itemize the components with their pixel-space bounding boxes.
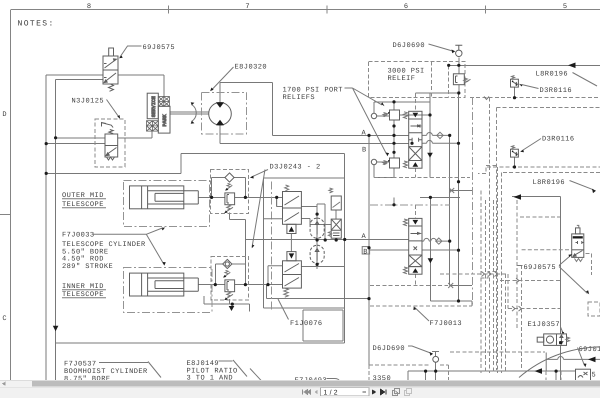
wire pump top riser bbox=[219, 83, 221, 103]
svg-text:D: D bbox=[2, 111, 6, 119]
bundle chevrons top bbox=[484, 97, 489, 100]
valve hoist center cell ticks bbox=[409, 138, 422, 142]
wire vertical 369 bbox=[368, 135, 370, 365]
cb2 relief arrow bbox=[223, 270, 230, 277]
wire relief row top bbox=[374, 102, 430, 114]
toolbar prev view icon bbox=[393, 389, 400, 396]
relief 3000psi body bbox=[453, 74, 464, 85]
svg-text:SERVICE: SERVICE bbox=[151, 96, 157, 117]
wire line A hoist bbox=[272, 134, 408, 136]
wire valve1 port B bbox=[422, 140, 459, 143]
seq valve 2 pilot box bbox=[287, 252, 296, 261]
brake block hatch bottom-left bbox=[147, 121, 159, 131]
underline OUTER MID bbox=[62, 198, 106, 200]
valve F7J0013 pilot top bbox=[409, 218, 422, 226]
valve N3J0125 body bbox=[105, 134, 118, 157]
valve 69J0575 right spring bbox=[575, 259, 583, 262]
wire valve1 port A bbox=[422, 133, 450, 136]
valve N3J0125 spring top bbox=[109, 130, 113, 134]
f1j x valve top box bbox=[331, 196, 341, 210]
svg-text:PARK: PARK bbox=[162, 114, 168, 126]
flow arrow hoist bbox=[427, 153, 433, 158]
f1j capsule 1 arrow bbox=[315, 222, 319, 235]
dashed jog lower right bbox=[480, 272, 496, 279]
vent D6JD690 circle bbox=[433, 356, 439, 362]
inner cylinder inner tube bbox=[155, 281, 184, 289]
shuttle D3R0116 lower bbox=[511, 149, 519, 157]
f1j x valve spring bbox=[328, 232, 331, 237]
svg-text:RELEIF: RELEIF bbox=[388, 75, 416, 83]
box telescope section bbox=[264, 178, 345, 308]
toolbar background bbox=[0, 387, 600, 398]
ruler tick top 1 bbox=[167, 6, 169, 14]
wire bottom main bbox=[56, 342, 345, 344]
svg-text:B: B bbox=[362, 147, 367, 155]
valve hoist spring top bbox=[404, 112, 408, 119]
check diamond telescope bbox=[436, 238, 442, 244]
svg-text:289" STROKE: 289" STROKE bbox=[62, 262, 113, 271]
svg-text:NOTES:: NOTES: bbox=[18, 20, 55, 29]
wire return staircase bbox=[46, 154, 345, 343]
leader F7J0033 bbox=[93, 228, 164, 265]
wire pump outlet bbox=[219, 125, 221, 143]
dashed bundle line 3 bbox=[489, 98, 491, 373]
vent D6J0690 bbox=[456, 50, 462, 56]
svg-text:69J0575: 69J0575 bbox=[524, 264, 557, 272]
wire vertical 394 bbox=[393, 102, 395, 178]
dashed pilot y305 bbox=[370, 305, 472, 307]
wire right arrow line bbox=[512, 196, 561, 198]
leader E8J0320 bbox=[213, 67, 234, 89]
port relief B body bbox=[390, 158, 400, 168]
svg-text:D3R0116: D3R0116 bbox=[542, 136, 575, 144]
arrow rail y371 bbox=[535, 368, 543, 374]
valve 69J0575 arrows bbox=[105, 60, 117, 83]
leader D3R0116 upper bbox=[522, 85, 539, 89]
wire cb2 branch bbox=[215, 264, 245, 285]
component E1J0357 arrows bbox=[560, 335, 563, 344]
scrollbar track bbox=[0, 381, 600, 388]
arrow right y197 bbox=[514, 194, 522, 200]
relief 3000psi spring bbox=[464, 78, 471, 83]
wire pump top link bbox=[220, 82, 272, 84]
dashed jog upper right bbox=[478, 166, 496, 174]
brake block PARK cell bbox=[158, 106, 170, 133]
port relief B pilot circle bbox=[371, 159, 376, 164]
box right region top edge bbox=[496, 107, 600, 109]
box outer mid cylinder enclosure bbox=[124, 180, 210, 226]
ruler tick top 3 bbox=[485, 6, 487, 14]
outer cylinder barrel bbox=[130, 186, 184, 209]
leader 69J0575 right down bbox=[559, 267, 588, 294]
junction dots d3r bbox=[513, 96, 516, 99]
wire relief3000 bottom bbox=[458, 85, 460, 93]
box right region left edge bbox=[495, 108, 497, 371]
wire valve2 port B bbox=[422, 249, 459, 251]
wire line B hoist bbox=[220, 142, 409, 144]
valve hoist pilot bottom bbox=[409, 161, 422, 169]
wire left riser 1 bbox=[46, 75, 103, 381]
svg-text:L8R0196: L8R0196 bbox=[533, 179, 566, 187]
svg-text:D3R0116: D3R0116 bbox=[540, 87, 573, 95]
component E1J0357 spring bbox=[566, 337, 570, 342]
outer cylinder inner tube bbox=[155, 193, 184, 201]
motor triangle top bbox=[216, 102, 224, 108]
wire d3r2 drop bbox=[514, 157, 516, 167]
wire line A telescope bbox=[245, 239, 408, 241]
border left line bbox=[10, 10, 12, 381]
seq valve 1 pilot box bbox=[287, 224, 296, 233]
chain line y205 bbox=[370, 204, 450, 206]
wire vertical 449 lower bbox=[449, 241, 451, 285]
junction dots bottom rail bbox=[424, 370, 427, 373]
ruler tick top 2 bbox=[326, 6, 328, 14]
wire vent drop bbox=[458, 57, 460, 65]
svg-text:D6JD690: D6JD690 bbox=[373, 345, 406, 353]
check diamond hoist bbox=[437, 132, 443, 138]
leader F1J0076 bbox=[278, 299, 289, 320]
wire v1 right port bbox=[301, 204, 317, 240]
valve hoist X cell bbox=[409, 147, 422, 161]
junction dots verticals bbox=[367, 134, 370, 137]
arrow left riser down bbox=[53, 326, 59, 332]
junction dots cb1 bbox=[210, 196, 213, 199]
wire tank top line bbox=[449, 64, 600, 66]
valve hoist spring bottom bbox=[404, 161, 408, 168]
dashed tank line y97 bbox=[470, 97, 600, 99]
svg-text:6: 6 bbox=[404, 3, 408, 11]
valve F7J0013 spring bottom bbox=[404, 267, 408, 274]
wire relief2 loop bbox=[374, 165, 394, 178]
pilot chevrons y308 bbox=[512, 306, 522, 311]
junction dots relief row bbox=[392, 100, 395, 103]
svg-text:C: C bbox=[2, 315, 6, 323]
box motor E8J0320 enclosure bbox=[202, 92, 247, 134]
svg-text:F7J0013: F7J0013 bbox=[430, 320, 463, 328]
box 3000 psi relief enclosure bbox=[369, 61, 466, 97]
underline TELESCOPE (outer) bbox=[62, 207, 106, 209]
wire line B telescope bbox=[370, 249, 409, 251]
svg-text:N3J0125: N3J0125 bbox=[72, 98, 105, 106]
valve F7J0013 center ticks bbox=[414, 247, 418, 251]
valve N3J0125 arrow bbox=[106, 148, 117, 156]
cb1 valve body bbox=[225, 193, 235, 205]
cb2 check diamond with circle bbox=[223, 259, 232, 268]
toolbar first page button bbox=[303, 390, 312, 395]
closed port X hoist bbox=[449, 188, 454, 193]
seq valve 2 body bbox=[283, 261, 302, 288]
dashed inner divider 3000 box bbox=[431, 61, 433, 97]
dashed link label 69J0575r bbox=[518, 265, 523, 267]
dashed bundle line 6 bbox=[501, 173, 503, 374]
outer cylinder piston bbox=[142, 186, 148, 209]
arrow cb2 down bbox=[229, 306, 235, 311]
wire bottom rail left bbox=[408, 370, 576, 372]
wire v2 right port bbox=[301, 266, 345, 268]
wire v1 feed riser bbox=[277, 197, 283, 206]
wire v2 upper port loop bbox=[268, 266, 283, 285]
svg-text:5: 5 bbox=[592, 372, 597, 380]
wire N3J0125 supply 2 bbox=[46, 143, 105, 145]
toolbar next page button bbox=[372, 389, 376, 394]
valve 69J0575 right pilot bbox=[576, 228, 581, 234]
arrow pilot y359 bbox=[588, 357, 596, 363]
svg-text:E8J0320: E8J0320 bbox=[235, 64, 268, 72]
wire v1 lower port loop bbox=[264, 218, 283, 220]
port relief A body bbox=[390, 110, 400, 120]
wire f1j box bbox=[303, 310, 343, 341]
dashed pilot line y217 bbox=[520, 216, 560, 218]
wire N3J0125 supply bbox=[56, 137, 105, 139]
port relief A spring bbox=[383, 113, 390, 117]
leader D3J0243 bbox=[252, 170, 269, 248]
svg-text:1 / 2: 1 / 2 bbox=[324, 389, 338, 396]
outer cylinder rod bbox=[148, 191, 199, 204]
seq valve 2 spring bbox=[284, 288, 289, 297]
UI BOTTOM bbox=[0, 381, 600, 398]
motor E8J0320 circle bbox=[209, 103, 232, 126]
valve F7J0013 arrow cell bbox=[411, 233, 420, 235]
seq link bbox=[290, 234, 292, 252]
seq valve 1 body bbox=[283, 192, 302, 225]
dashed bundle line 7 bbox=[505, 274, 507, 373]
wire left riser 2 bbox=[56, 80, 103, 381]
leaders 1700 psi bbox=[345, 88, 387, 154]
f1j capsule 2 bbox=[310, 245, 324, 263]
wire pilot cross line bbox=[546, 353, 600, 372]
wire cb2 bottom bbox=[204, 296, 250, 312]
wire cb1 pilot bbox=[230, 213, 246, 285]
inner cylinder barrel bbox=[130, 273, 184, 296]
wire A riser bbox=[271, 83, 273, 136]
wire closed port line bbox=[450, 190, 473, 192]
dashed return top left bbox=[448, 65, 450, 97]
cb1 relief arrow bbox=[225, 183, 232, 190]
wire vent2 drop bbox=[432, 351, 439, 371]
wire motor shaft bbox=[170, 112, 209, 114]
cb1 check diamond bbox=[225, 173, 234, 182]
valve F7J0013 pilot bottom bbox=[409, 267, 422, 275]
valve 69J0575 pilot box bbox=[109, 48, 114, 56]
leader E8J0149 slashes bbox=[219, 360, 264, 383]
leader D3R0116 lower bbox=[522, 139, 542, 152]
DASHED bbox=[95, 61, 600, 381]
small valve bottom right bbox=[576, 369, 591, 381]
svg-text:B: B bbox=[363, 248, 368, 256]
toolbar last page button bbox=[381, 389, 387, 394]
wire big arc bbox=[519, 347, 600, 378]
wire N3J0125 out to block bbox=[118, 132, 152, 138]
svg-text:E1J0357: E1J0357 bbox=[528, 321, 561, 329]
junction dots hoist ports bbox=[448, 134, 451, 137]
leader D6JD690 bbox=[408, 346, 431, 353]
leader 69J01 bottom bbox=[578, 348, 585, 366]
wire inner cyl port line bbox=[198, 284, 282, 286]
shuttle D3R0116 upper bbox=[511, 79, 519, 87]
leader D6J0690 bbox=[429, 44, 453, 51]
leader L8R0196 second bbox=[570, 181, 594, 190]
dashed pilot line y167 bbox=[487, 166, 600, 168]
wire relief1 out bbox=[400, 114, 431, 116]
wire y93 link bbox=[415, 92, 459, 94]
valve hoist pilot top bbox=[409, 111, 422, 119]
dashed bundle line 4 bbox=[493, 200, 495, 373]
leader 69J0575 bbox=[120, 46, 142, 57]
valve F7J0013 X cell bbox=[409, 255, 422, 267]
dashed bundle line 5 bbox=[497, 167, 499, 373]
arrow tank line bbox=[568, 63, 576, 69]
svg-text:F1J0076: F1J0076 bbox=[290, 320, 323, 328]
dashed pilot line y270 bbox=[440, 274, 560, 309]
dashed below rail bbox=[546, 371, 561, 381]
f1j capsule 2 arrow bbox=[315, 249, 319, 261]
inner cylinder rod bbox=[148, 278, 199, 291]
seq valve wires left bbox=[276, 197, 278, 206]
dashed x517 bbox=[516, 200, 518, 330]
toolbar next view icon bbox=[405, 389, 412, 396]
junction dots f1j bbox=[316, 213, 319, 216]
border top line bbox=[11, 9, 600, 11]
underline INNER MID bbox=[62, 289, 106, 291]
valve F7J0013 body bbox=[409, 226, 422, 267]
toolbar page field bbox=[321, 388, 370, 396]
wire v1 right port lower bbox=[301, 219, 331, 225]
box N3J0125 enclosure bbox=[95, 119, 125, 167]
node B box (telescope) bbox=[362, 247, 369, 254]
valve F7J0013 spring top bbox=[404, 219, 408, 226]
cb2 spring bottom bbox=[225, 292, 234, 300]
dashed pilot valve1 bottom bbox=[414, 168, 416, 177]
leader F7J0013 bbox=[415, 308, 429, 322]
f1j capsule 1 bbox=[310, 218, 324, 238]
scrollbar thumb bbox=[32, 381, 600, 387]
svg-text:D6J0690: D6J0690 bbox=[393, 42, 426, 50]
dashed pilot y352 bbox=[450, 351, 545, 353]
dashed bundle line 1 bbox=[480, 191, 482, 374]
svg-text:F7J0033: F7J0033 bbox=[62, 232, 95, 240]
wire vertical 458 lower bbox=[458, 250, 460, 301]
valve hoist arrow cell bbox=[411, 125, 421, 127]
underline TELESCOPE (inner) bbox=[62, 297, 106, 299]
valve F7J0010 hoist body bbox=[409, 119, 422, 161]
svg-text:D3J0243 - 2: D3J0243 - 2 bbox=[270, 164, 321, 172]
wire closed port line 2 bbox=[450, 285, 473, 287]
wire vertical 458 bbox=[458, 93, 460, 250]
port relief B spring bbox=[383, 161, 390, 165]
toolbar prev page button bbox=[315, 390, 318, 394]
dashed 3350 box left bbox=[368, 365, 370, 381]
leader 69J0575 right up bbox=[559, 256, 570, 266]
dashed pilot valve2 bottom bbox=[415, 274, 417, 285]
wire v2 drain riser bbox=[267, 285, 370, 299]
box inner mid cylinder enclosure bbox=[124, 267, 212, 312]
dashed drain line y288 bbox=[370, 285, 448, 287]
leader N3J0125 bbox=[107, 100, 119, 117]
dashed pilot valve2 top bbox=[415, 205, 417, 218]
rotation arrows bbox=[192, 105, 197, 122]
svg-text:7: 7 bbox=[245, 3, 249, 11]
box cb2 enclosure bbox=[211, 257, 249, 301]
closed port X telescope bbox=[448, 283, 453, 288]
junction dots telescope valve bbox=[392, 203, 395, 206]
svg-text:5: 5 bbox=[563, 3, 567, 11]
wire d3r1 drop bbox=[514, 87, 516, 98]
svg-text:8: 8 bbox=[87, 3, 91, 11]
wire vertical 430 upper bbox=[429, 93, 431, 178]
dashed pilot line y172 bbox=[503, 172, 600, 174]
inner cylinder piston bbox=[142, 273, 148, 296]
dashed right edge partial box bbox=[588, 302, 600, 316]
wire f1j cross link bbox=[324, 225, 326, 241]
component E1J0357 body bbox=[544, 334, 567, 346]
svg-text:L8R0196: L8R0196 bbox=[536, 71, 569, 79]
dashed x521 bbox=[521, 265, 523, 370]
valve N3J0125 lever bbox=[102, 123, 114, 128]
valve 69J0575 port ticks bbox=[104, 64, 107, 78]
wire outer cyl port line bbox=[198, 196, 282, 198]
wire cb1 branch bbox=[212, 178, 246, 198]
brake block hatch top-right bbox=[158, 97, 169, 107]
dashed pilot valve1 top bbox=[414, 93, 416, 111]
flow arrow telescope bbox=[428, 258, 434, 263]
junction dots cb2 bbox=[214, 283, 217, 286]
wire valve2 port A bbox=[422, 238, 450, 241]
shuttle D3R0116 upper spring bbox=[512, 76, 515, 79]
valve 69J0575 spring bbox=[109, 84, 114, 91]
svg-text:RELIEFS: RELIEFS bbox=[283, 94, 316, 102]
dashed right valve enclosure bbox=[585, 254, 591, 275]
cb1 spring bottom bbox=[225, 205, 234, 213]
valve 69J0575 right body bbox=[572, 234, 584, 258]
port relief A pilot circle bbox=[371, 113, 376, 118]
cb2 valve body bbox=[225, 280, 235, 292]
scrollbar left arrow bbox=[2, 382, 6, 386]
motor triangle bottom bbox=[216, 120, 224, 126]
dashed drain line y177 bbox=[374, 177, 470, 179]
wire f1j xvalve drop bbox=[335, 210, 337, 240]
svg-text:A: A bbox=[362, 130, 367, 138]
box cb1 enclosure bbox=[211, 170, 249, 214]
dashed vent line y364 bbox=[369, 364, 449, 366]
shuttle D3R0116 lower spring bbox=[512, 146, 515, 149]
valve 69J0575 top-left body bbox=[103, 56, 118, 84]
wire f1j vertical bbox=[317, 204, 325, 269]
svg-text:69J0575: 69J0575 bbox=[143, 44, 176, 52]
leader F7J0537 slash bbox=[99, 362, 161, 378]
dashed bundle line 2 bbox=[485, 200, 487, 373]
dashed pilot to valve bbox=[522, 249, 572, 251]
chain line x271 bbox=[270, 182, 272, 312]
leader L8R0196 top bbox=[573, 73, 598, 87]
f1j x valve body bbox=[331, 219, 341, 238]
wire 69J0575 out to brake block bbox=[118, 75, 164, 97]
pilot chevrons y274 bbox=[482, 272, 498, 277]
junction dots left risers bbox=[54, 136, 57, 139]
dashed 3350 box right bbox=[448, 365, 450, 381]
dashed y280 right bbox=[500, 280, 560, 282]
leader F7J0493 bbox=[327, 379, 340, 382]
wire relief3000 top bbox=[458, 65, 460, 74]
chain line x472 bbox=[472, 97, 474, 305]
valve N3J0125 detent bbox=[107, 157, 115, 160]
brake block SERVICE cell bbox=[147, 93, 158, 119]
wire e1j vertical bbox=[560, 197, 562, 382]
wire vertical 430 lower bbox=[394, 197, 472, 306]
wire bottom rail stubs bbox=[408, 371, 556, 381]
leader E1J0357 bbox=[561, 327, 563, 333]
ruler tick left bbox=[0, 214, 11, 216]
wire vertical 449 bbox=[449, 135, 451, 241]
